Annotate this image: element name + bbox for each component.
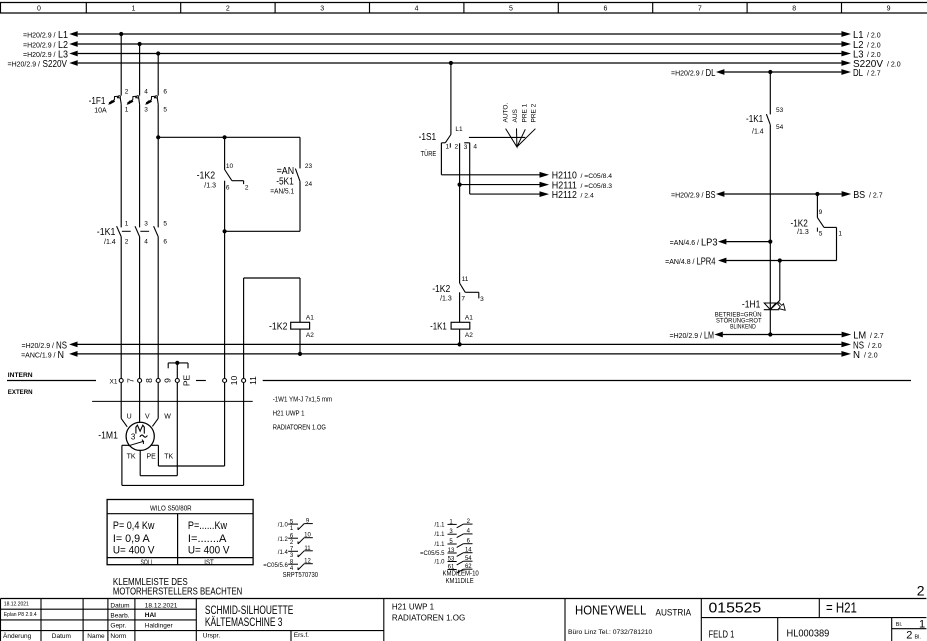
arrow H2112: [540, 190, 594, 201]
label PRE 1: [522, 103, 529, 122]
wire LM bus: [670, 330, 884, 342]
title address: [568, 629, 653, 636]
terminal X1:10: [223, 376, 239, 386]
contact cross-ref SRPT570730: [263, 519, 318, 579]
wire L3 drop lower: [157, 237, 159, 379]
svg-text:=ANC/1.9 /: =ANC/1.9 /: [21, 352, 55, 359]
svg-text:4: 4: [144, 88, 148, 95]
wire motor TK-left loop: [122, 445, 244, 485]
svg-text:N: N: [58, 349, 65, 361]
svg-text:PRE 1: PRE 1: [522, 103, 529, 122]
svg-text:9: 9: [887, 6, 891, 13]
svg-text:54: 54: [776, 124, 784, 131]
label -1K2 aux: [197, 170, 216, 189]
svg-text:/ 2.4: / 2.4: [581, 193, 594, 200]
svg-text:6: 6: [163, 88, 167, 95]
svg-text:5: 5: [819, 230, 823, 237]
wire LPR4 ref: [665, 256, 836, 268]
svg-text:3: 3: [320, 6, 324, 13]
wire phase V to motor: [139, 383, 141, 422]
svg-text:Bl.: Bl.: [896, 622, 903, 628]
wire L3 bus: [23, 49, 881, 61]
contact -1K1 pole 2: [135, 226, 140, 236]
svg-text:SRPT570730: SRPT570730: [283, 572, 319, 579]
svg-text:4: 4: [144, 239, 148, 246]
svg-text:2: 2: [125, 239, 129, 246]
svg-text:DL: DL: [706, 67, 716, 79]
svg-text:HL000389: HL000389: [787, 628, 830, 639]
wire L2 drop mid: [139, 104, 141, 227]
wire terminal11 riser: [243, 278, 245, 378]
node S220V tap: [449, 61, 453, 65]
svg-text:3: 3: [131, 433, 136, 442]
arrow H2110: [540, 171, 613, 182]
label -1K1 main: [97, 227, 116, 246]
svg-text:10: 10: [226, 163, 234, 170]
wire PE-terminal to motor: [176, 383, 178, 476]
svg-text:Haldinger: Haldinger: [145, 623, 174, 630]
svg-text:23: 23: [305, 163, 313, 170]
label INTERN: [8, 372, 33, 379]
label cable -1W1: [273, 396, 333, 431]
label AUS: [512, 108, 519, 122]
svg-text:1: 1: [919, 618, 925, 630]
svg-text:BS: BS: [853, 189, 865, 201]
wire K2contact to K1 coil: [459, 292, 461, 322]
svg-text:4: 4: [415, 6, 419, 13]
wire L1 drop upper: [120, 34, 122, 96]
mechanical link K1: [122, 230, 149, 232]
svg-text:-1K2: -1K2: [197, 170, 216, 181]
svg-text:=H20/2.9 /: =H20/2.9 /: [671, 70, 704, 77]
svg-text:KM11DILE: KM11DILE: [446, 578, 474, 585]
svg-text:1: 1: [838, 230, 842, 237]
wire L3 drop mid: [157, 104, 159, 227]
switch -1S1: [441, 126, 477, 151]
svg-text:/1.1: /1.1: [434, 532, 445, 538]
title honeywell: [575, 603, 692, 619]
svg-text:TK: TK: [127, 454, 136, 461]
svg-text:7: 7: [461, 296, 465, 303]
svg-text:2: 2: [917, 582, 925, 598]
svg-text:SCHMID-SILHOUETTE: SCHMID-SILHOUETTE: [205, 605, 294, 617]
wire tap rail: [158, 136, 300, 138]
svg-text:2: 2: [125, 88, 129, 95]
circuit-breaker F1 pole 1: [109, 96, 122, 105]
label -1K2 right: [791, 218, 809, 236]
svg-text:-1K1: -1K1: [97, 227, 116, 238]
svg-text:-1K1: -1K1: [430, 321, 447, 332]
svg-text:=H20/2.9 /: =H20/2.9 /: [23, 32, 56, 39]
svg-text:N: N: [853, 349, 860, 361]
wire L1 drop mid: [120, 104, 122, 227]
svg-text:X1: X1: [110, 378, 118, 385]
svg-text:11: 11: [304, 546, 311, 552]
title =H21: [826, 599, 857, 616]
label =AN -5K1: [270, 166, 294, 196]
svg-text:MOTORHERSTELLERS BEACHTEN: MOTORHERSTELLERS BEACHTEN: [113, 585, 242, 597]
svg-text:S220V: S220V: [43, 58, 68, 70]
svg-text:1: 1: [290, 526, 294, 532]
svg-text:/1.3: /1.3: [440, 295, 452, 302]
svg-text:Name: Name: [87, 633, 105, 640]
svg-text:2: 2: [906, 629, 912, 641]
svg-text:=H20/2.9 /: =H20/2.9 /: [670, 333, 703, 340]
contact cross-ref KMDILEM: [420, 519, 479, 585]
svg-text:=AN/5.1: =AN/5.1: [270, 188, 294, 195]
node L1 tap: [119, 32, 123, 36]
node DL tap: [768, 70, 772, 74]
title Bl box: [896, 618, 925, 641]
wire motor PE loop: [140, 450, 177, 475]
svg-text:Gepr.: Gepr.: [110, 623, 126, 630]
border frame: [0, 3, 2, 14]
node LPR4 junction: [778, 258, 782, 262]
svg-text:Ers.f.: Ers.f.: [294, 632, 309, 639]
svg-text:6: 6: [163, 239, 167, 246]
title block grid: [1, 599, 927, 641]
motor M glyph: [136, 425, 144, 433]
title project: [392, 602, 465, 623]
svg-text:-1S1: -1S1: [419, 132, 437, 143]
title rev row: [4, 601, 37, 618]
svg-text:=C05/5.5: =C05/5.5: [420, 551, 445, 557]
svg-text:=H20/2.9 /: =H20/2.9 /: [671, 192, 704, 199]
lamp -1H1 LED: [764, 303, 785, 311]
svg-text:HAI: HAI: [145, 612, 156, 619]
wire K2-1 drop: [836, 227, 838, 260]
label -1K2 coil: [269, 321, 288, 332]
pin labels F1 top: [125, 88, 168, 95]
svg-text:62: 62: [465, 564, 472, 570]
svg-text:9: 9: [162, 378, 172, 383]
wire LP3 ref: [670, 237, 771, 249]
svg-text:11: 11: [248, 376, 258, 385]
table WILO footer: [140, 559, 214, 566]
svg-text:LPR4: LPR4: [697, 256, 716, 268]
svg-text:W: W: [164, 414, 171, 421]
svg-text:0: 0: [37, 6, 41, 13]
svg-text:/ =C05/8.3: / =C05/8.3: [581, 183, 613, 190]
svg-text:H2112: H2112: [552, 190, 577, 201]
wire L2 drop upper: [139, 44, 141, 96]
terminal X1:11: [242, 376, 258, 385]
svg-text:/ =C05/8.4: / =C05/8.4: [581, 173, 613, 180]
svg-text:/1.0: /1.0: [434, 560, 445, 566]
title hl number: [787, 628, 830, 639]
label motor terminals bottom: [127, 454, 174, 461]
contact -1K2 aux (10/6/2): [225, 137, 249, 231]
pin labels K1 bottom: [125, 239, 168, 246]
label -1K2 center: [432, 284, 452, 303]
wire K2-branch to terminal 10: [224, 231, 226, 378]
svg-text:-1H1: -1H1: [742, 300, 761, 311]
wire DL drop: [769, 72, 771, 114]
svg-text:Datum: Datum: [110, 603, 129, 610]
label -1S1: [419, 132, 437, 158]
svg-text:3: 3: [464, 144, 468, 151]
svg-text:A1: A1: [306, 314, 314, 321]
svg-text:=AN/4.6 /: =AN/4.6 /: [670, 240, 699, 247]
svg-text:EXTERN: EXTERN: [8, 389, 33, 396]
svg-text:2: 2: [226, 6, 230, 13]
pin labels K1 top: [125, 221, 168, 228]
title date labels: [110, 603, 129, 630]
label EXTERN: [8, 389, 33, 396]
svg-text:RADIATOREN 1.OG: RADIATOREN 1.OG: [273, 425, 326, 432]
svg-text:Urspr.: Urspr.: [203, 632, 221, 639]
node L3 tap to K2 branch: [156, 135, 160, 139]
svg-text:2: 2: [245, 185, 249, 192]
svg-text:/ 2.7: / 2.7: [870, 333, 884, 340]
svg-text:10A: 10A: [94, 107, 107, 114]
wire motor TK-right loop: [151, 445, 225, 466]
svg-text:=H20/2.9 /: =H20/2.9 /: [22, 343, 55, 350]
contact -1K1 pole 1: [117, 226, 122, 236]
node rail-K2 junction: [223, 135, 227, 139]
contact -1K1 (53/54): [766, 107, 783, 131]
svg-text:/ 2.0: / 2.0: [887, 61, 901, 68]
motor chord: [128, 440, 143, 446]
svg-text:11: 11: [462, 276, 469, 283]
node bottom rail junction: [223, 229, 227, 233]
wire K1 coil to NS: [459, 329, 461, 344]
node L2 tap: [138, 42, 142, 46]
label AUTO.: [502, 103, 509, 123]
svg-text:SOLL: SOLL: [140, 559, 153, 566]
svg-text:18.12.2021: 18.12.2021: [4, 601, 29, 607]
wire L1 drop lower: [120, 237, 122, 379]
svg-text:I=.......A: I=.......A: [188, 533, 227, 545]
svg-text:2: 2: [290, 540, 294, 546]
svg-text:3: 3: [144, 221, 148, 228]
terminal X1:7: [119, 378, 135, 383]
svg-text:KÄLTEMASCHINE 3: KÄLTEMASCHINE 3: [205, 617, 283, 629]
wire DL bus: [671, 67, 881, 79]
svg-text:9: 9: [819, 209, 823, 216]
wire K1-54 drop: [769, 125, 771, 335]
terminal X1:8: [138, 378, 154, 383]
wire L2 drop lower: [139, 237, 141, 379]
svg-text:HONEYWELL: HONEYWELL: [575, 603, 646, 618]
label X1: [110, 378, 118, 385]
wire phase U to motor: [121, 383, 127, 427]
svg-text:Büro Linz Tel.: 0732/781210: Büro Linz Tel.: 0732/781210: [568, 629, 653, 636]
svg-text:INTERN: INTERN: [8, 372, 33, 379]
wire terminal11 to TK-left: [243, 383, 245, 486]
svg-text:3: 3: [290, 553, 294, 559]
svg-text:L1: L1: [455, 126, 463, 133]
ruler band: [0, 3, 927, 14]
svg-text:-1M1: -1M1: [98, 431, 118, 442]
svg-text:=H20/2.9 /: =H20/2.9 /: [23, 42, 56, 49]
node LP3 junction: [768, 240, 772, 244]
svg-text:TÜRE: TÜRE: [421, 150, 437, 158]
svg-text:-1K1: -1K1: [746, 114, 764, 125]
svg-text:/ 2.0: / 2.0: [864, 352, 878, 359]
arrow H2111: [540, 181, 613, 192]
svg-text:2: 2: [455, 144, 459, 151]
node BS branch: [815, 192, 819, 196]
svg-text:H21 UWP 1: H21 UWP 1: [273, 411, 305, 418]
svg-text:BLINKEND: BLINKEND: [730, 324, 756, 330]
title col labels: [3, 632, 126, 640]
svg-text:/1.1: /1.1: [434, 542, 445, 548]
page number 2: [917, 582, 925, 598]
label -1M1: [98, 431, 118, 442]
svg-text:/1.2: /1.2: [278, 537, 289, 543]
title customer: [205, 605, 294, 629]
node K1 coil on NS: [458, 342, 462, 346]
terminal X1:9: [156, 378, 172, 383]
title date values: [145, 602, 178, 629]
svg-text:P=......Kw: P=......Kw: [188, 520, 227, 532]
terminal X1:PE: [175, 375, 191, 387]
wire BS bus: [671, 189, 883, 201]
svg-text:AUTO.: AUTO.: [502, 103, 509, 123]
svg-text:3: 3: [144, 106, 148, 113]
svg-text:U= 400 V: U= 400 V: [188, 545, 230, 557]
svg-text:/1.1: /1.1: [434, 522, 445, 528]
svg-text:=H20/2.9 /: =H20/2.9 /: [8, 61, 41, 68]
terminal strip line: [7, 380, 911, 382]
contact -1K2 (11/7/3): [460, 276, 485, 303]
wire S1 pos1 to H2110: [441, 143, 541, 175]
svg-text:10: 10: [304, 533, 311, 539]
cable -1W1 marker: [92, 400, 253, 402]
svg-text:AUS: AUS: [512, 108, 519, 122]
contact -1K1 pole 3: [154, 226, 159, 236]
wire L1 bus: [23, 29, 881, 41]
wire H2111: [460, 184, 542, 186]
contact -1K2 (9/5/1): [817, 194, 842, 237]
motor 3~ label: [131, 433, 148, 442]
svg-text:7: 7: [698, 6, 702, 13]
motor -1M1 circle: [126, 422, 154, 450]
wire N bus: [21, 349, 878, 361]
svg-text:PRE 2: PRE 2: [531, 103, 538, 122]
svg-text:015525: 015525: [709, 599, 762, 616]
svg-text:/ 2.0: / 2.0: [868, 343, 882, 350]
label lamp legend: [715, 312, 762, 331]
svg-text:/ 2.7: / 2.7: [867, 70, 881, 77]
svg-text:Norm: Norm: [110, 633, 126, 640]
svg-text:U: U: [127, 414, 132, 421]
svg-text:BS: BS: [706, 189, 716, 201]
svg-text:/1.0: /1.0: [278, 523, 289, 529]
circuit-breaker F1 pole 2: [127, 96, 140, 105]
wire coil branch top: [244, 277, 300, 279]
svg-text:8: 8: [792, 6, 796, 13]
svg-text:U= 400 V: U= 400 V: [113, 545, 155, 557]
table WILO box: [107, 500, 253, 565]
table WILO left cell: [113, 520, 155, 557]
svg-text:-1K2: -1K2: [432, 284, 450, 295]
svg-text:A2: A2: [306, 332, 314, 339]
switch position fan: [469, 128, 536, 147]
svg-text:8: 8: [144, 378, 154, 383]
svg-text:1: 1: [446, 144, 450, 151]
svg-text:5: 5: [509, 6, 513, 13]
label KLEMMLEISTE: [113, 576, 242, 598]
svg-text:4: 4: [473, 144, 477, 151]
svg-text:7: 7: [125, 378, 135, 383]
svg-text:LM: LM: [704, 330, 714, 342]
svg-text:P= 0,4 Kw: P= 0,4 Kw: [113, 520, 155, 532]
svg-text:PE: PE: [182, 375, 192, 387]
svg-text:V: V: [145, 414, 150, 421]
label motor terminals top: [127, 414, 172, 421]
label -1K1 coil: [430, 321, 447, 332]
svg-text:PE: PE: [147, 454, 157, 461]
svg-text:=AN/4.8 /: =AN/4.8 /: [665, 259, 694, 266]
svg-text:LM: LM: [853, 330, 866, 342]
svg-text:1: 1: [131, 6, 135, 13]
wire parallel bottom rail: [225, 230, 300, 232]
svg-text:-1W1 YM-J 7x1,5 mm: -1W1 YM-J 7x1,5 mm: [273, 396, 333, 403]
svg-text:AUSTRIA: AUSTRIA: [656, 607, 692, 618]
svg-text:IST: IST: [204, 559, 214, 566]
svg-text:A1: A1: [465, 314, 473, 321]
svg-text:FELD 1: FELD 1: [709, 630, 735, 641]
svg-text:54: 54: [465, 556, 472, 562]
wire L3 drop upper: [157, 54, 159, 96]
svg-text:-1K2: -1K2: [269, 321, 288, 332]
svg-text:1: 1: [125, 221, 129, 228]
svg-text:KMDILEM-10: KMDILEM-10: [443, 571, 479, 578]
svg-text:/ 2.0: / 2.0: [867, 42, 881, 49]
table WILO right cell: [188, 520, 230, 557]
svg-text:=C05/5.6: =C05/5.6: [263, 563, 288, 569]
label -1K1 53-54: [746, 114, 764, 136]
svg-text:14: 14: [465, 547, 472, 553]
wire coil branch drop: [299, 278, 301, 322]
svg-text:/1.4: /1.4: [104, 239, 116, 246]
svg-text:/ 2.7: / 2.7: [869, 192, 883, 199]
svg-text:Datum: Datum: [52, 633, 71, 640]
svg-text:-1F1: -1F1: [89, 96, 106, 107]
wire PE drop: [176, 363, 178, 378]
wire lamp to LM: [0, 0, 1, 1]
svg-text:24: 24: [305, 181, 313, 188]
coil -1K2: [291, 314, 315, 339]
svg-text:/1.4: /1.4: [278, 550, 289, 556]
node H2111 junction: [458, 183, 462, 187]
label -1F1: [89, 96, 107, 114]
svg-text:Änderung: Änderung: [3, 632, 32, 640]
contact -5K1 (23/24): [295, 137, 312, 231]
svg-text:1: 1: [125, 106, 129, 113]
svg-text:6: 6: [603, 6, 607, 13]
label PRE 2: [531, 103, 538, 122]
wire phase W to motor: [152, 383, 158, 427]
svg-text:I= 0,9 A: I= 0,9 A: [113, 533, 150, 545]
pin labels F1 bottom: [125, 106, 168, 113]
table WILO header: [150, 505, 192, 512]
svg-text:/1.4: /1.4: [752, 128, 764, 135]
wire NS bus: [22, 339, 882, 351]
title number: [709, 599, 762, 616]
wire K2 coil to N: [299, 329, 301, 354]
svg-text:RADIATOREN 1.OG: RADIATOREN 1.OG: [392, 613, 465, 623]
svg-text:TK: TK: [164, 454, 173, 461]
node K2 coil on N: [298, 352, 302, 356]
svg-text:18.12.2021: 18.12.2021: [145, 602, 178, 609]
svg-text:12: 12: [304, 559, 311, 565]
svg-text:Eplan P8 2.9.4: Eplan P8 2.9.4: [4, 612, 37, 618]
wire terminal10 to TK-right: [224, 383, 226, 466]
title urspr: [203, 632, 309, 639]
